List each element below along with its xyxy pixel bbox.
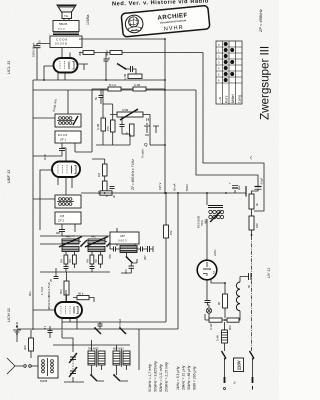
capacitor 131,69: [126, 66, 137, 74]
osc section coils 2: [113, 348, 130, 368]
osc section wires: [53, 329, 139, 381]
svg-text:287: 287: [143, 255, 147, 260]
cap under IFT2: [56, 224, 65, 236]
UY11 cathode wire: [207, 279, 225, 300]
junction dot switch: [125, 68, 127, 70]
IF transformer 2 primary: [55, 195, 81, 208]
svg-text:+: +: [229, 181, 231, 185]
bus y92: [33, 89, 165, 91]
cap 17: [43, 325, 53, 338]
resistor 90 vertical: [217, 294, 228, 308]
band switch S4: [114, 375, 120, 381]
legend table 1: [148, 361, 169, 393]
svg-text:0,8: 0,8: [60, 214, 65, 218]
bottom switches: [91, 375, 97, 381]
svg-text:ZF = 468 kHz ± 7 kHz: ZF = 468 kHz ± 7 kHz: [131, 159, 135, 191]
svg-text:235v: 235v: [213, 249, 217, 256]
junction dot osc switch: [126, 256, 128, 258]
svg-text:86V/ 3,5mA: 86V/ 3,5mA: [47, 282, 51, 297]
svg-text:4000/Ω/50B: 4000/Ω/50B: [199, 215, 201, 228]
svg-text:17: 17: [43, 325, 47, 329]
cap at 106: [104, 53, 112, 81]
cap 25: [49, 272, 59, 282]
voltage box 110V: [232, 358, 244, 384]
svg-text:-16µF: -16µF: [260, 177, 264, 185]
svg-text:1,7mA: 1,7mA: [40, 287, 44, 295]
resistor 300 vertical: [23, 330, 34, 358]
svg-text:Lang: Lang: [238, 95, 242, 103]
wires right resistors: [251, 209, 253, 236]
SEC-TOP: [6, 0, 210, 91]
svg-text:0,5M: 0,5M: [122, 108, 129, 112]
svg-text:28kHz = 31 µHy: 28kHz = 31 µHy: [182, 365, 186, 391]
junction dot node top: [164, 38, 166, 40]
cap 101,95: [94, 89, 104, 104]
UCH pins: [33, 290, 77, 329]
svg-text:57: 57: [212, 270, 216, 274]
barretter wires: [224, 343, 226, 351]
wires mid network: [96, 89, 150, 145]
SEC-RIGHT: [197, 9, 271, 389]
svg-text:50208: 50208: [40, 379, 48, 383]
tube UBF11 pins: [40, 148, 72, 230]
resistor 0,2M: [123, 73, 142, 80]
tube UCL11 pins: [44, 48, 70, 81]
osc coil striped: [120, 246, 137, 253]
svg-text:50: 50: [247, 284, 251, 288]
junction dot S5: [94, 327, 96, 329]
tube UCL11: [54, 58, 78, 73]
svg-text:Mittel: Mittel: [231, 94, 235, 103]
svg-text:PM: PM: [61, 259, 64, 263]
band switch table: [216, 41, 242, 104]
resistor 2k vertical: [249, 194, 259, 209]
junction dot HT cap: [225, 192, 227, 194]
svg-text:ZF 2: ZF 2: [58, 219, 64, 223]
IFT1 connections: [33, 90, 92, 152]
svg-text:105/6a: 105/6a: [86, 15, 90, 25]
mains plug pin right tick: [252, 386, 254, 390]
electrolytic +2uF: [229, 181, 241, 193]
cap 50: [240, 273, 252, 288]
svg-text:ZF 1: ZF 1: [60, 138, 66, 142]
switch top row: [95, 328, 101, 334]
cap left of coil: [108, 244, 120, 259]
antenna coil box: [38, 356, 58, 383]
wire top-left to cap: [37, 44, 50, 81]
stamp ARCHIEF NVHR: [121, 5, 210, 37]
band switch S1: [81, 240, 87, 246]
L2 padder resistors: [87, 255, 103, 264]
resistor 1M vertical: [97, 164, 107, 177]
scale lamp: [205, 301, 212, 314]
svg-text:UCL 11: UCL 11: [6, 61, 11, 74]
svg-text:10: 10: [107, 56, 111, 60]
svg-text:2µF: 2µF: [237, 185, 241, 190]
resistor 0,15M: [133, 83, 146, 91]
wire row y89: [92, 88, 165, 90]
mains plug pins: [225, 377, 253, 383]
left bus wire: [32, 80, 34, 330]
svg-text:44C: 44C: [66, 235, 71, 239]
wire osc switch stubs: [127, 253, 138, 263]
svg-text:200kHz = 2,15 mHy: 200kHz = 2,15 mHy: [165, 362, 169, 393]
svg-text:50kΩ: 50kΩ: [185, 184, 189, 191]
wires resistor row: [205, 314, 227, 320]
right vertical bus x178: [177, 193, 179, 329]
svg-text:150: 150: [106, 126, 110, 131]
svg-text:50: 50: [38, 40, 42, 44]
transformer core: [53, 33, 79, 35]
junction dot S1: [80, 245, 82, 247]
svg-text:48V/3,5mA: 48V/3,5mA: [47, 296, 51, 310]
svg-text:Kurz: Kurz: [225, 95, 229, 103]
headphone jack H: [144, 117, 159, 147]
wires to plug: [225, 359, 253, 377]
cap 501: [105, 187, 115, 198]
cap J07 bus: [98, 322, 103, 329]
heater winding scallops: [236, 282, 240, 311]
junction dot S6: [119, 327, 121, 329]
mains switch 2: [250, 351, 255, 359]
svg-text:-7v: -7v: [249, 155, 253, 160]
resistor 150 vertical: [106, 120, 115, 132]
svg-text:780Ω: 780Ω: [202, 220, 204, 226]
svg-text:Tonabn.: Tonabn.: [141, 148, 145, 158]
svg-text:7k0: 7k0: [95, 258, 98, 263]
svg-text:H: H: [146, 117, 149, 122]
svg-text:15k: 15k: [169, 230, 173, 235]
IFT2 wires: [33, 199, 75, 236]
osc transformer box A87: [110, 232, 139, 244]
heater chain wires: [209, 308, 240, 320]
resistor 48M: [105, 50, 122, 56]
output transformer primary box: [53, 19, 79, 32]
electrolytic 16uF: [252, 177, 264, 194]
svg-text:A4C: A4C: [91, 235, 96, 239]
svg-text:25: 25: [49, 278, 53, 282]
svg-text:510kHz = 1,7 mHy: 510kHz = 1,7 mHy: [148, 364, 152, 392]
band coil L2 A4C: [85, 235, 108, 252]
svg-text:1kHz = 5,3 µHy: 1kHz = 5,3 µHy: [176, 366, 180, 390]
junction dot S2: [106, 245, 108, 247]
svg-text:ZF = 468kHz: ZF = 468kHz: [258, 9, 263, 33]
resistor 2k on HT bus: [100, 191, 116, 198]
IF transformer 2 secondary: [55, 212, 81, 224]
svg-text:5,5mA: 5,5mA: [118, 319, 122, 327]
junction dot x166: [165, 192, 167, 194]
resistor 0,1W horizontal: [209, 318, 222, 330]
band section wires: [40, 236, 110, 272]
band coil L1 44C: [59, 235, 82, 252]
rectifier tube UY11: [197, 260, 217, 280]
svg-text:30k: 30k: [78, 51, 82, 56]
wire transformer right to bus: [79, 38, 165, 40]
svg-text:110V: 110V: [237, 360, 242, 370]
svg-text:195 V: 195 V: [158, 183, 162, 190]
resistor 50k horizontal: [77, 292, 89, 300]
gang link dashed: [72, 360, 74, 370]
svg-text:TH: TH: [64, 14, 68, 18]
resistor 15k vertical: [164, 225, 174, 238]
osc hook wire: [121, 263, 131, 273]
svg-text:UCH 11: UCH 11: [6, 308, 11, 322]
heater loop wire inner: [165, 90, 258, 188]
svg-text:0,2M: 0,2M: [123, 73, 127, 80]
loudspeaker LS: [57, 5, 76, 19]
junction dot bus y92: [164, 89, 166, 91]
SEC-MID: [6, 39, 264, 330]
svg-text:50kHz = 88 µHy: 50kHz = 88 µHy: [187, 365, 191, 390]
bus y319: [62, 321, 166, 323]
svg-text:o o o: o o o: [58, 27, 65, 31]
svg-text:300: 300: [23, 345, 27, 350]
junction dot S3: [90, 374, 92, 376]
svg-text:A87: A87: [120, 234, 125, 238]
smoothing choke: [208, 206, 224, 223]
legend table 2: [176, 365, 197, 391]
cap 100: [124, 266, 134, 274]
svg-text:UBF 11: UBF 11: [6, 170, 11, 183]
svg-text:500kHz = 3,825mHy: 500kHz = 3,825mHy: [154, 361, 158, 392]
switch near 120,66: [117, 64, 125, 69]
svg-text:PM: PM: [87, 259, 90, 263]
output transformer secondary box: [50, 36, 82, 48]
junction dot bus y80: [164, 79, 166, 81]
svg-text:500: 500: [59, 289, 63, 294]
osc section coils bottom left: [88, 348, 105, 368]
svg-text:DW A875: DW A875: [88, 348, 99, 351]
junction dot HT x165: [164, 192, 166, 194]
vertical bus x165: [164, 39, 166, 193]
svg-text:96W = 265 µHy: 96W = 265 µHy: [193, 366, 197, 390]
resistor M1,0: [108, 83, 121, 91]
svg-text:0,4A: 0,4A: [216, 335, 220, 341]
svg-text:0,1M: 0,1M: [134, 83, 141, 87]
svg-text:56mA: 56mA: [173, 184, 177, 191]
resistor 0,1M vertical: [96, 118, 106, 131]
svg-text:Zwergsuper III: Zwergsuper III: [258, 46, 272, 120]
svg-text:0,1W: 0,1W: [209, 323, 213, 330]
svg-text:50 k: 50 k: [78, 292, 84, 296]
osc switch: [127, 257, 133, 263]
svg-text:800: 800: [228, 325, 232, 330]
long bus y80: [33, 79, 165, 81]
svg-text:90v: 90v: [28, 291, 32, 296]
junction dot cap branch: [105, 79, 107, 81]
vertical x92: [91, 89, 93, 152]
svg-text:5BU/6: 5BU/6: [59, 22, 68, 26]
cap under IFT1: [33, 143, 65, 156]
svg-text:0,1M: 0,1M: [96, 123, 100, 130]
wire 15k branch: [165, 193, 167, 322]
svg-text:0 0 0 3: 0 0 0 3: [118, 239, 127, 243]
tube UCH11: [55, 302, 82, 318]
wavetrap antenna symbol: [13, 322, 21, 342]
gang wires: [62, 330, 84, 382]
junction dot barretter top: [224, 329, 226, 331]
resistor 180 vertical: [249, 216, 259, 230]
L1 cap bottom: [64, 267, 69, 269]
tube UBF11: [52, 162, 80, 178]
svg-text:5 0 2 0 8: 5 0 2 0 8: [55, 42, 67, 46]
mains switch 1: [222, 351, 227, 359]
svg-text:90: 90: [217, 301, 221, 305]
potentiometer 0,5M: [117, 108, 143, 120]
resistor 3k vertical: [125, 124, 135, 136]
mixer wires: [56, 268, 94, 302]
svg-text:8 0 0 0: 8 0 0 0: [58, 133, 68, 137]
junction dot HT x104: [104, 192, 106, 194]
capacitor 50n top-left: [34, 40, 42, 48]
svg-text:9mA: 9mA: [43, 154, 47, 160]
main HT bus y198: [81, 192, 246, 194]
tuning gang C2: [69, 367, 77, 377]
heater loop wire outer: [203, 53, 264, 212]
barretter 0,4A: [216, 322, 228, 343]
svg-text:92kHz = 0,11 mHy: 92kHz = 0,11 mHy: [159, 364, 163, 392]
svg-text:UY 11: UY 11: [267, 268, 271, 278]
junction dot cathode: [43, 79, 45, 81]
svg-text:180: 180: [255, 223, 259, 228]
antenna symbol V: [7, 358, 38, 374]
cap right of coil: [137, 246, 153, 260]
IF transformer 1 coils: [55, 114, 81, 127]
choke wires: [206, 193, 208, 260]
band switch S2: [107, 240, 113, 246]
L1 padder resistors: [61, 255, 77, 264]
L2 cap bottom: [90, 267, 95, 269]
tuning gang C1: [69, 353, 77, 363]
wire anode row: [79, 52, 203, 54]
right mains wire dashdot: [251, 236, 253, 351]
bus y330: [17, 328, 178, 330]
resistor 30k anode: [78, 51, 94, 57]
junction dot S4: [113, 374, 115, 376]
switch S6 top row: [120, 328, 126, 334]
svg-text:M 1,0: M 1,0: [109, 83, 116, 87]
cap 122,125: [120, 117, 125, 134]
osc box top wires: [117, 228, 135, 246]
svg-text:Q: Q: [144, 142, 148, 147]
IF transformer 1 secondary: [55, 131, 81, 143]
resistor 2M vertical: [97, 181, 107, 195]
svg-text:180V/ 35mA: 180V/ 35mA: [32, 42, 36, 57]
resistor 800 horizontal: [227, 318, 239, 330]
junction dot jack bus: [164, 144, 166, 146]
bus end terminal bar: [245, 186, 247, 197]
wire y145 to bus: [150, 144, 165, 146]
grid cap symbol: [78, 64, 89, 70]
SEC-BOT: [6, 192, 197, 393]
resistor 500 vertical: [59, 281, 69, 295]
wires resistor column: [92, 159, 105, 193]
svg-text:1M: 1M: [97, 172, 101, 177]
svg-text:MW 0003: MW 0003: [113, 348, 124, 351]
svg-text:478: 478: [108, 254, 112, 259]
svg-text:—a: —a: [218, 97, 222, 103]
svg-text:7k5: 7k5: [69, 258, 72, 263]
